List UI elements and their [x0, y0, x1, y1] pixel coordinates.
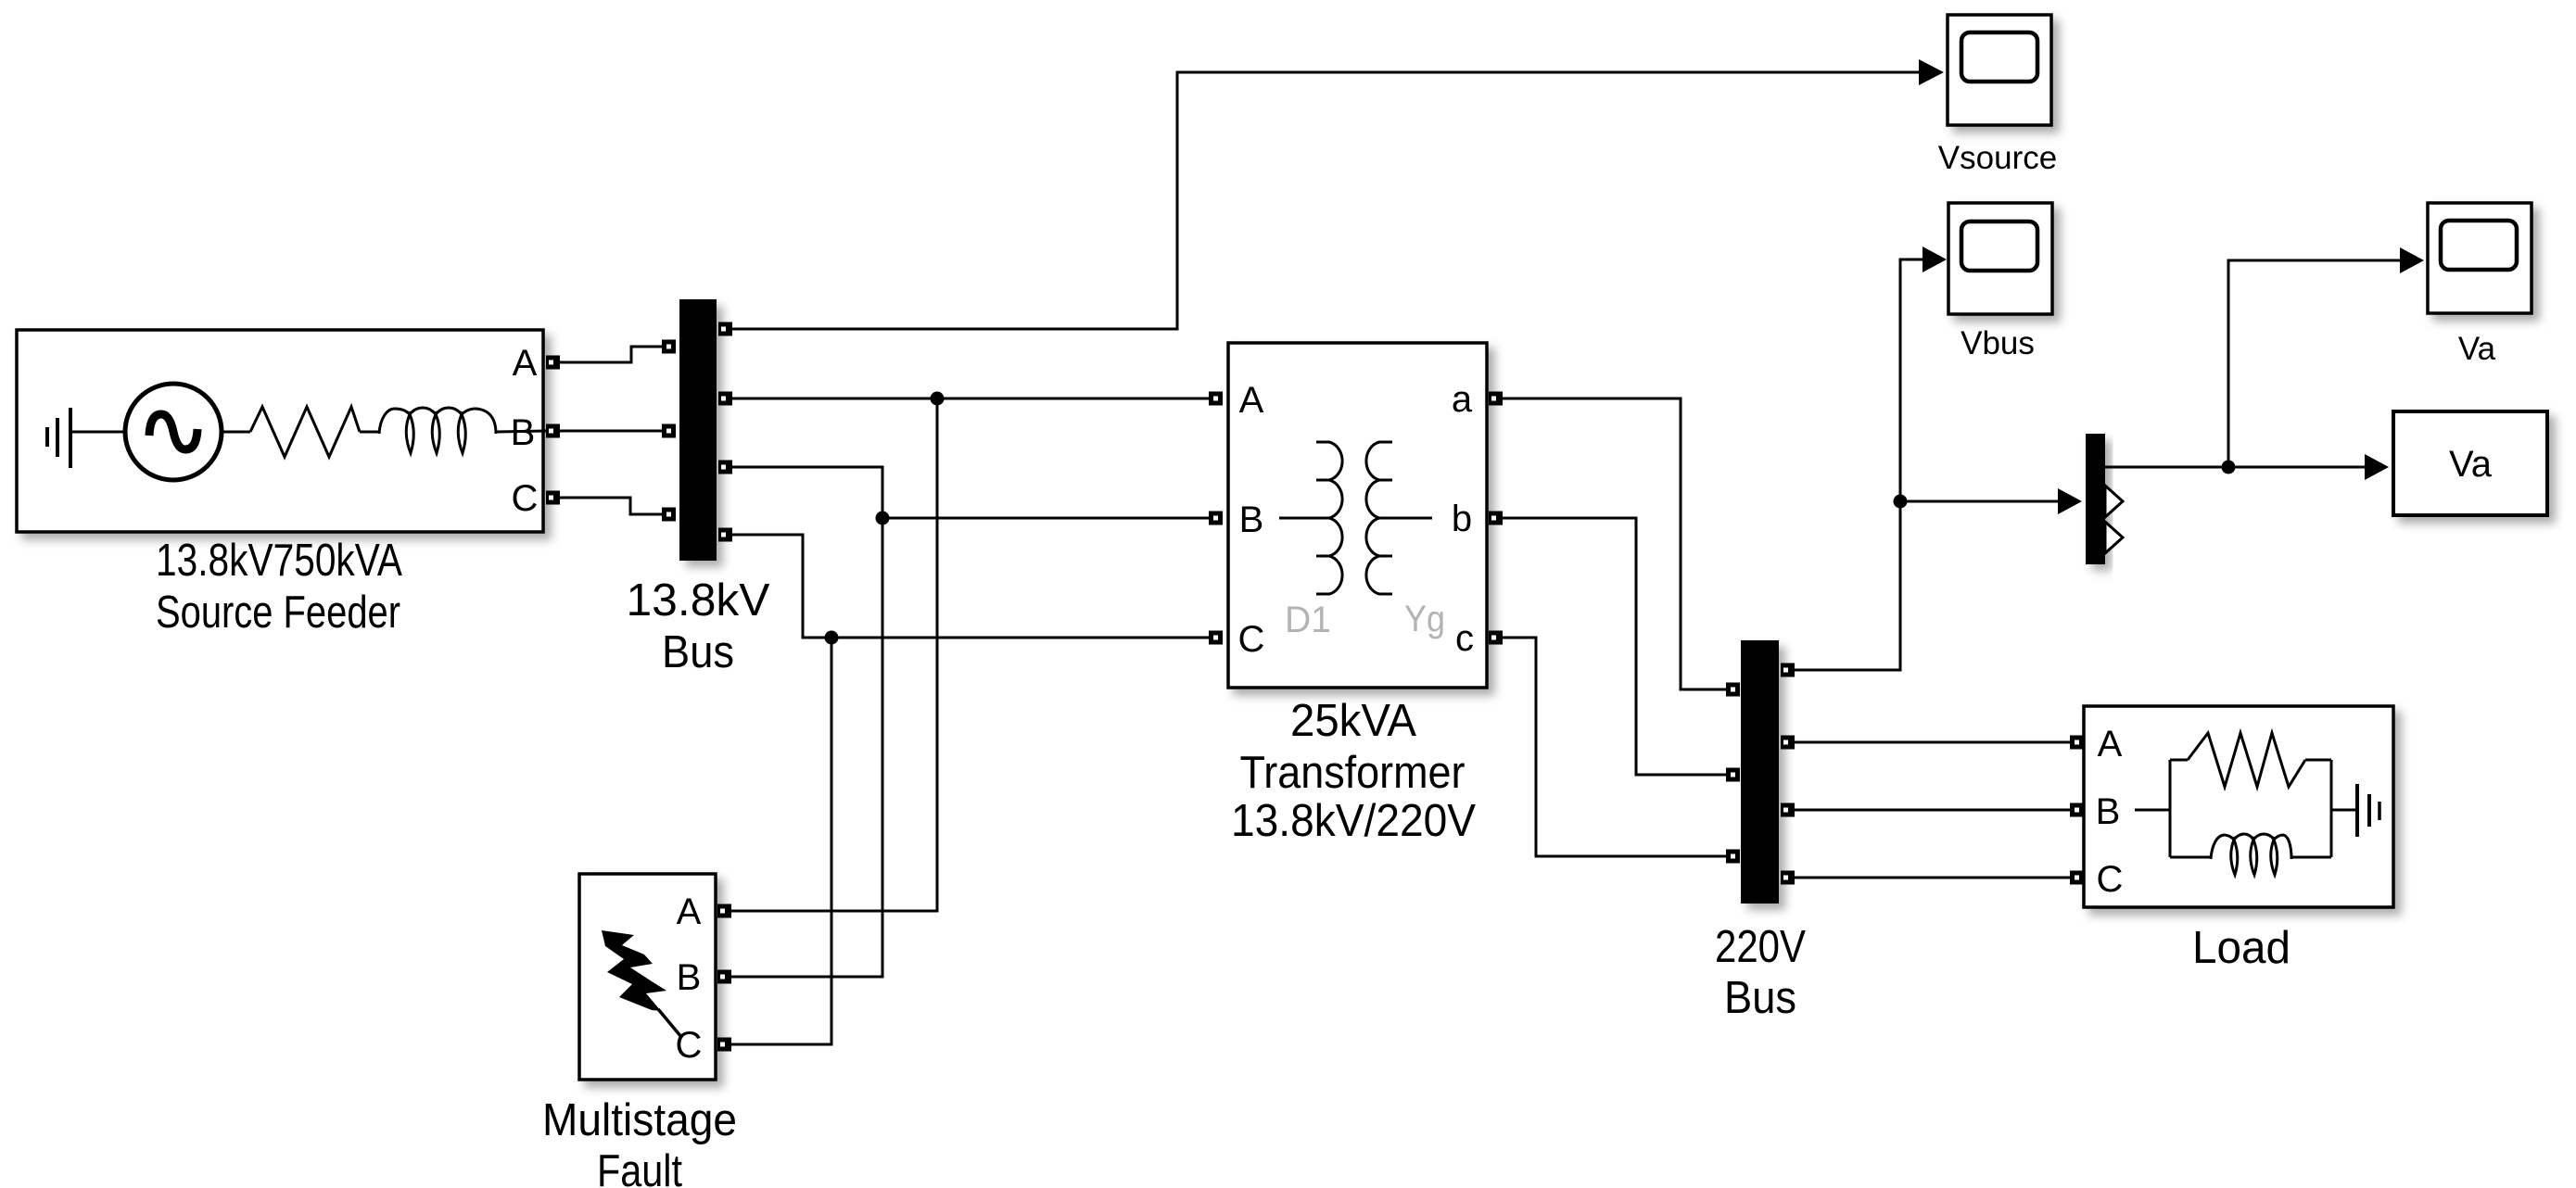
primary winding D1 (Transformer): [1316, 442, 1342, 594]
wire: Load B pin stub to RL loop: [2135, 809, 2170, 812]
svg-text:A: A: [513, 343, 538, 384]
label: Multistage Fault: [542, 1095, 737, 1188]
svg-text:Transformer: Transformer: [1240, 748, 1466, 798]
input port square B (Transformer): [1209, 512, 1223, 525]
output port square 2 (220V Bus): [1781, 736, 1795, 750]
input port square 3 (220V Bus): [1726, 850, 1740, 864]
ground symbol (inside Source Feeder): [47, 408, 70, 468]
output port square C (Source Feeder): [546, 491, 560, 505]
svg-text:Load: Load: [2192, 923, 2290, 973]
output port square a (Transformer): [1489, 392, 1503, 406]
label: 13.8kV Bus: [627, 575, 770, 677]
bus selector block (black bar with chevrons): [2086, 434, 2123, 564]
output port square B (Source Feeder): [546, 424, 560, 438]
wire: junction to Transformer B: [882, 517, 1209, 520]
svg-text:C: C: [1238, 619, 1265, 660]
svg-text:Fault: Fault: [597, 1146, 682, 1188]
wire: Transformer a to 220V Bus in1: [1503, 398, 1726, 689]
RL loop frame (Load): [2170, 760, 2331, 857]
output port square 2 (13.8kV Bus): [718, 392, 732, 406]
svg-text:B: B: [2096, 791, 2121, 832]
input port square 1 (13.8kV Bus): [662, 340, 676, 354]
junction node on Vbus measurement line: [1894, 495, 1908, 509]
wire: Bus Selector output Va: [2105, 466, 2365, 469]
arrowhead into Bus Selector: [2058, 488, 2082, 514]
inductor L (Load): [2211, 834, 2291, 875]
output port square 3 (220V Bus): [1781, 803, 1795, 817]
bus bar: 13.8kV Bus: [679, 299, 717, 561]
svg-text:13.8kV/220V: 13.8kV/220V: [1231, 796, 1476, 846]
arrowhead into Vbus scope: [1922, 246, 1947, 272]
svg-text:B: B: [1239, 499, 1264, 540]
inductor L (Source Feeder series inductance): [379, 408, 496, 453]
svg-text:C: C: [676, 1025, 703, 1066]
input port square C (Transformer): [1209, 631, 1223, 645]
wire: B pin to primary winding: [1279, 517, 1316, 520]
junction node on phase A line: [931, 392, 945, 406]
wire: junction to Bus Selector input: [1900, 500, 2058, 503]
wire: Transformer b to 220V Bus in2: [1503, 518, 1726, 775]
block: Load: [2084, 706, 2393, 907]
wire: 220V Bus out3 to Load B: [1795, 809, 2070, 812]
secondary winding Yg (Transformer): [1366, 442, 1392, 594]
wire: Source Feeder B to 13.8kV Bus in2: [560, 430, 662, 433]
wire: Source Feeder A to 13.8kV Bus in1: [560, 347, 662, 362]
wire: inductor to port B: [497, 431, 546, 432]
wire: source to resistor: [222, 431, 250, 434]
svg-text:220V: 220V: [1715, 922, 1806, 972]
label: 220V Bus: [1715, 922, 1806, 1023]
svg-text:C: C: [512, 478, 539, 519]
svg-text:A: A: [1239, 380, 1264, 421]
resistor R (Source Feeder series resistance): [250, 407, 360, 457]
wire: 220V Bus out2 to Load A: [1795, 741, 2070, 744]
output port square B (Multistage Fault): [717, 970, 731, 984]
svg-text:Bus: Bus: [662, 627, 734, 677]
bus bar: 220V Bus: [1741, 640, 1779, 904]
output port square A (Multistage Fault): [717, 904, 731, 918]
input port square 3 (13.8kV Bus): [662, 508, 676, 522]
junction node on phase C line: [825, 631, 839, 645]
svg-text:B: B: [511, 412, 536, 453]
svg-text:B: B: [677, 957, 702, 998]
wire: phase B down to Multistage Fault B: [731, 518, 882, 977]
wire: 13.8kV Bus out4 to Transformer C: [732, 535, 1209, 638]
svg-text:A: A: [677, 891, 702, 932]
wire: Va signal up to Va scope: [2228, 260, 2400, 467]
ground symbol (Load): [2357, 784, 2379, 837]
input port square B (Load): [2070, 803, 2084, 817]
display block: Va: [2393, 411, 2547, 515]
svg-text:c: c: [1455, 618, 1474, 659]
svg-text:25kVA: 25kVA: [1290, 696, 1416, 746]
scope block: Va: [2428, 203, 2532, 313]
output port square 1 (220V Bus): [1781, 664, 1795, 677]
input port square 2 (13.8kV Bus): [662, 424, 676, 438]
wire: 13.8kV Bus out1 to Vsource scope (net Vabc source): [732, 72, 1919, 329]
scope block: Vsource: [1948, 15, 2051, 125]
output port square C (Multistage Fault): [717, 1038, 731, 1052]
input port square 2 (220V Bus): [1726, 768, 1740, 782]
svg-text:Multistage: Multistage: [542, 1095, 737, 1145]
lightning bolt icon (Multistage Fault): [602, 930, 681, 1037]
svg-text:a: a: [1452, 379, 1473, 420]
svg-text:Source Feeder: Source Feeder: [156, 588, 400, 638]
svg-text:Vbus: Vbus: [1961, 325, 2035, 361]
svg-text:Yg: Yg: [1404, 599, 1445, 639]
svg-text:C: C: [2097, 859, 2124, 900]
arrowhead into Vsource scope: [1919, 59, 1944, 85]
wire: phase C down to Multistage Fault C: [731, 638, 831, 1044]
svg-text:13.8kV: 13.8kV: [627, 575, 770, 626]
svg-text:D1: D1: [1285, 600, 1331, 640]
arrowhead into Va scope: [2400, 247, 2424, 273]
svg-text:A: A: [2098, 724, 2123, 765]
svg-text:Vsource: Vsource: [1938, 140, 2057, 176]
wire: 13.8kV Bus out2 to Transformer A: [732, 398, 1209, 400]
svg-text:b: b: [1452, 499, 1472, 539]
wire: RL loop to ground: [2331, 809, 2355, 812]
input port square A (Transformer): [1209, 392, 1223, 406]
wire: secondary winding to b pin: [1392, 517, 1432, 520]
wire: resistor to inductor: [360, 431, 379, 434]
scope block: Vbus: [1948, 203, 2052, 314]
wire: 220V Bus out4 to Load C: [1795, 877, 2070, 879]
svg-text:Va: Va: [2449, 444, 2493, 485]
wire: ground to AC source: [72, 431, 125, 434]
output port square 4 (13.8kV Bus): [718, 528, 732, 542]
svg-text:Bus: Bus: [1724, 973, 1796, 1023]
wire: Source Feeder C to 13.8kV Bus in3: [560, 498, 662, 514]
arrowhead into Va display: [2365, 454, 2389, 480]
output port square 3 (13.8kV Bus): [718, 461, 732, 474]
output port square A (Source Feeder): [546, 356, 560, 370]
junction node on phase B line: [876, 512, 890, 525]
resistor R (Load): [2188, 733, 2305, 787]
label: 25kVA Transformer 13.8kV/220V: [1231, 696, 1476, 846]
wire: phase A down to Multistage Fault A: [731, 398, 937, 911]
input port square 1 (220V Bus): [1726, 683, 1740, 697]
block: 25kVA Transformer 13.8kV/220V: [1228, 343, 1487, 688]
svg-text:13.8kV750kVA: 13.8kV750kVA: [156, 536, 402, 586]
wire: Transformer c to 220V Bus in3: [1503, 638, 1726, 856]
svg-text:Va: Va: [2458, 331, 2496, 367]
wire: 220V Bus out1 up to Vbus scope and Bus Selector: [1795, 259, 1922, 670]
wire: 13.8kV Bus out3 to corner above junction: [732, 467, 882, 518]
label: 13.8kV750kVA Source Feeder: [156, 536, 402, 638]
output port square c (Transformer): [1489, 631, 1503, 645]
block: Multistage Fault: [579, 874, 716, 1080]
output port square b (Transformer): [1489, 512, 1503, 525]
output port square 1 (13.8kV Bus): [718, 322, 732, 336]
input port square C (Load): [2070, 871, 2084, 885]
AC voltage source V1 (circle with sine): [125, 384, 222, 480]
junction node on Va signal: [2222, 461, 2236, 474]
subsystem block: 13.8kV750kVA Source Feeder: [17, 330, 543, 532]
input port square A (Load): [2070, 736, 2084, 750]
output port square 4 (220V Bus): [1781, 871, 1795, 885]
